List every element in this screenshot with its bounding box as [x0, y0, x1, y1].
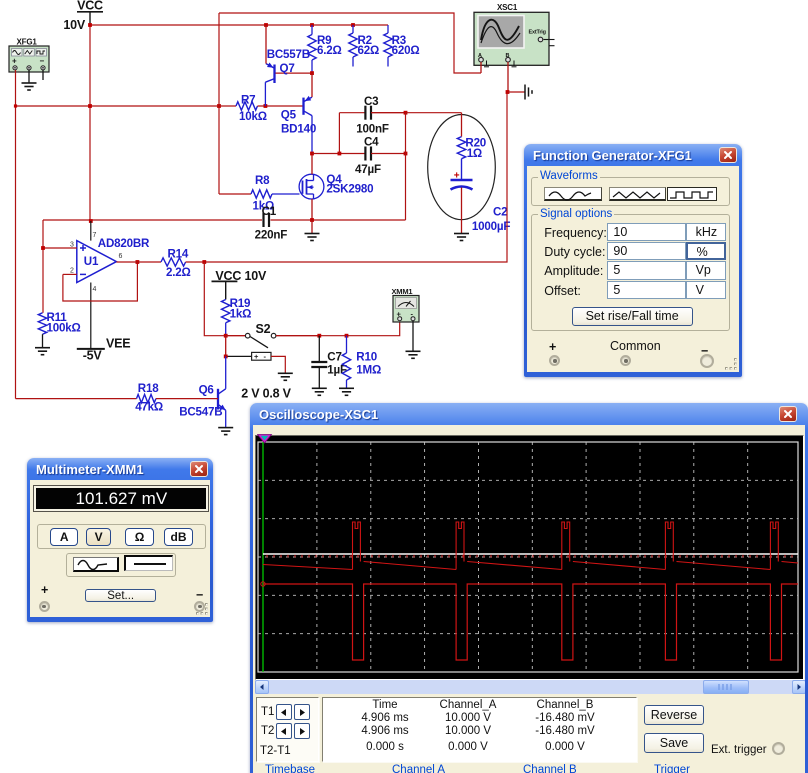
svg-text:100kΩ: 100kΩ	[47, 322, 81, 335]
svg-text:1kΩ: 1kΩ	[230, 308, 252, 321]
svg-text:C1: C1	[262, 205, 277, 218]
svg-text:XMM1: XMM1	[392, 287, 413, 296]
wire VCC rail to R9 R2 R3	[90, 24, 388, 26]
svg-text:6: 6	[119, 253, 123, 260]
wire op-amp + input	[43, 247, 77, 249]
capacitor C4 47uF	[355, 136, 406, 176]
svg-text:47µF: 47µF	[355, 163, 381, 176]
svg-text:BD140: BD140	[281, 123, 316, 136]
capacitor C1 220nF	[255, 205, 288, 241]
svg-text:−: −	[40, 57, 45, 66]
svg-text:BC557B: BC557B	[267, 48, 310, 61]
power VCC +10V supply symbol	[63, 0, 103, 32]
svg-text:62Ω: 62Ω	[358, 44, 380, 57]
junction + input tap	[41, 246, 45, 250]
junction Q7 emitter at rail	[264, 23, 268, 27]
wire scope B pin drop	[507, 62, 509, 92]
ellipse highlight around R20 C2	[428, 115, 496, 220]
multimeter XMM1 icon	[392, 287, 420, 322]
wire Q5 collector to Q4 drain	[311, 154, 313, 175]
svg-text:-5V: -5V	[83, 349, 103, 363]
wire S2 control to ground	[271, 356, 285, 373]
junction scope B ground tap	[506, 90, 510, 94]
wire R19 to S2 node	[225, 323, 227, 336]
svg-text:R18: R18	[138, 382, 159, 395]
switch S2 control box	[252, 352, 271, 361]
wire node A vertical x219	[218, 13, 220, 194]
op-amp U1 AD820BR	[70, 221, 150, 349]
wire R8 from node A	[219, 193, 251, 195]
ground below S2 control	[278, 373, 293, 380]
ground below R10	[339, 388, 354, 395]
svg-text:7: 7	[93, 232, 97, 239]
resistor R18 47k	[135, 382, 163, 414]
junction VCC rail at x90	[88, 23, 92, 27]
resistor R19 1k	[222, 297, 252, 323]
ground below C2	[454, 234, 469, 241]
svg-text:1000µF: 1000µF	[472, 220, 510, 233]
junction R2 top at rail	[351, 23, 355, 27]
wire XFG1 minus stub	[42, 70, 44, 80]
wire R11 to ground	[42, 334, 44, 348]
junction R9 bottom Q7 base Q5 emitter	[310, 71, 314, 75]
svg-text:Q7: Q7	[280, 62, 295, 75]
ground below XFG1 common	[22, 83, 37, 90]
svg-text:1MΩ: 1MΩ	[356, 364, 381, 377]
wire scope A pin stub	[480, 62, 482, 73]
oscilloscope XSC1 icon	[474, 3, 555, 67]
wire left branch to R11 and + input	[42, 220, 44, 313]
svg-text:U1: U1	[84, 255, 99, 268]
svg-text:R10: R10	[356, 351, 377, 364]
wire R8 to Q4 gate	[272, 193, 300, 195]
svg-text:XFG1: XFG1	[17, 38, 38, 47]
svg-text:2: 2	[70, 268, 74, 275]
resistor R7 10k	[236, 94, 267, 124]
svg-text:47kΩ: 47kΩ	[135, 401, 163, 414]
switch S2	[226, 322, 320, 348]
junction R14 output node	[202, 260, 206, 264]
capacitor C3 100nF	[356, 95, 405, 136]
wire scope B ground stub	[508, 91, 526, 93]
wire C1 line right section	[271, 219, 406, 221]
svg-text:C2: C2	[493, 206, 507, 219]
svg-text:1Ω: 1Ω	[467, 147, 482, 160]
ground below R11	[35, 348, 50, 355]
ground below Q6 emitter	[218, 428, 233, 435]
junction Q4 source at C1 line	[310, 218, 314, 222]
svg-text:220nF: 220nF	[255, 228, 288, 241]
wire R18 to Q6 base	[156, 398, 218, 400]
svg-text:6.2Ω: 6.2Ω	[317, 44, 342, 57]
wire XFG1 common lead	[28, 70, 30, 83]
svg-text:10kΩ: 10kΩ	[239, 110, 267, 123]
svg-text:C3: C3	[364, 95, 379, 108]
resistor R20 1ohm	[457, 113, 486, 160]
wire op-amp - input	[63, 273, 77, 275]
transistor Q6 BC547B NPN	[179, 356, 226, 427]
junction C7 tap	[317, 334, 321, 338]
wire C3 to R20 ellipse top	[406, 112, 462, 114]
junction R10 tap	[345, 334, 349, 338]
resistor R11 100k	[38, 311, 80, 335]
junction C3 C4 right side	[404, 111, 408, 156]
ground below Q4 source	[305, 234, 320, 241]
svg-text:ExtTrig: ExtTrig	[529, 30, 546, 36]
wire VCC rail drop to op-amp pin7	[89, 25, 91, 221]
ground sideways near scope	[525, 85, 532, 100]
wire XMM1 minus to ground	[412, 321, 414, 351]
junction VCC drop crossing R7 wire	[88, 104, 92, 108]
junction S2 node	[224, 334, 228, 338]
wire Q4 source ground stem	[311, 220, 313, 234]
junction Q6 collector node	[224, 355, 228, 359]
svg-text:XSC1: XSC1	[497, 3, 518, 12]
mosfet Q4 2SK2980	[299, 173, 373, 199]
junction R9 top at rail	[310, 23, 314, 27]
wire Q4 source to ground line	[311, 199, 313, 220]
transistor Q7 BC557B PNP	[265, 25, 312, 106]
wire top net from node A to scope channel A	[219, 13, 481, 73]
wire R7 to Q5 base	[258, 105, 304, 107]
svg-text:BC547B: BC547B	[179, 406, 222, 419]
svg-text:2.2Ω: 2.2Ω	[166, 266, 191, 279]
svg-text:+: +	[12, 57, 17, 66]
resistor R9 6.2ohm	[308, 25, 342, 73]
wire R14 to scope channel B riser	[186, 92, 507, 262]
svg-text:C4: C4	[364, 136, 379, 149]
ground below C7	[312, 388, 327, 395]
svg-text:620Ω: 620Ω	[392, 44, 420, 57]
svg-text:100nF: 100nF	[356, 123, 389, 136]
svg-text:2SK2980: 2SK2980	[326, 183, 373, 196]
wire op-amp output	[116, 261, 161, 263]
resistor R2 62ohm	[349, 25, 379, 67]
svg-text:R7: R7	[241, 94, 255, 107]
svg-text:10V: 10V	[245, 269, 268, 283]
junction node A and R7 wire	[217, 104, 221, 108]
wire R14 node down to S2 node	[204, 262, 225, 336]
junction R7 node Q7 collector	[264, 104, 268, 108]
svg-text:S2: S2	[256, 322, 271, 336]
svg-text:VEE: VEE	[106, 337, 130, 351]
resistor R14 2.2ohm	[161, 248, 191, 280]
svg-text:VCC: VCC	[77, 0, 103, 13]
resistor R10 1M	[342, 336, 381, 389]
wire XFG1 to R7	[16, 105, 237, 107]
svg-text:2 V 0.8 V: 2 V 0.8 V	[241, 387, 291, 401]
ground below XMM1	[406, 351, 421, 358]
transistor Q5 BD140 PNP	[281, 73, 316, 153]
wire S2 control branch	[226, 336, 252, 357]
svg-text:+: +	[454, 171, 460, 182]
wire C4 node	[312, 153, 365, 155]
svg-text:Q6: Q6	[199, 384, 215, 397]
wire C4 C3 drop to C1 line	[405, 113, 407, 220]
junction Q5 collector node	[310, 152, 314, 156]
junction XFG wire at x15	[14, 104, 17, 107]
power VCC 10V at R19	[212, 269, 268, 300]
svg-text:AD820BR: AD820BR	[98, 237, 150, 250]
power VEE -5V	[77, 337, 131, 363]
svg-text:10V: 10V	[63, 18, 86, 32]
wire XFG1 + output down left side	[15, 70, 17, 399]
capacitor C7 1uF	[311, 336, 347, 389]
resistor R3 620ohm	[384, 25, 420, 67]
junction feedback at output	[136, 260, 140, 264]
svg-text:4: 4	[93, 286, 97, 293]
wire S2 to XMM1 plus	[319, 321, 399, 336]
annotation 2V 0.8V	[241, 387, 291, 401]
wire R18 input	[16, 398, 137, 400]
wire C1 line left section	[43, 219, 262, 221]
svg-text:C7: C7	[327, 351, 341, 364]
wire feedback loop	[63, 262, 137, 301]
function generator XFG1 icon	[9, 38, 49, 73]
capacitor C2 1000uF polarized	[451, 159, 511, 234]
junction C3 drop at C4 wire	[338, 152, 342, 156]
svg-text:R8: R8	[255, 174, 270, 187]
svg-text:Q5: Q5	[281, 108, 297, 121]
junction op-amp pin7 at C1 line	[89, 219, 93, 223]
resistor R8 1k	[251, 174, 274, 213]
svg-text:R14: R14	[168, 248, 189, 261]
wire C3 branch	[339, 113, 365, 154]
